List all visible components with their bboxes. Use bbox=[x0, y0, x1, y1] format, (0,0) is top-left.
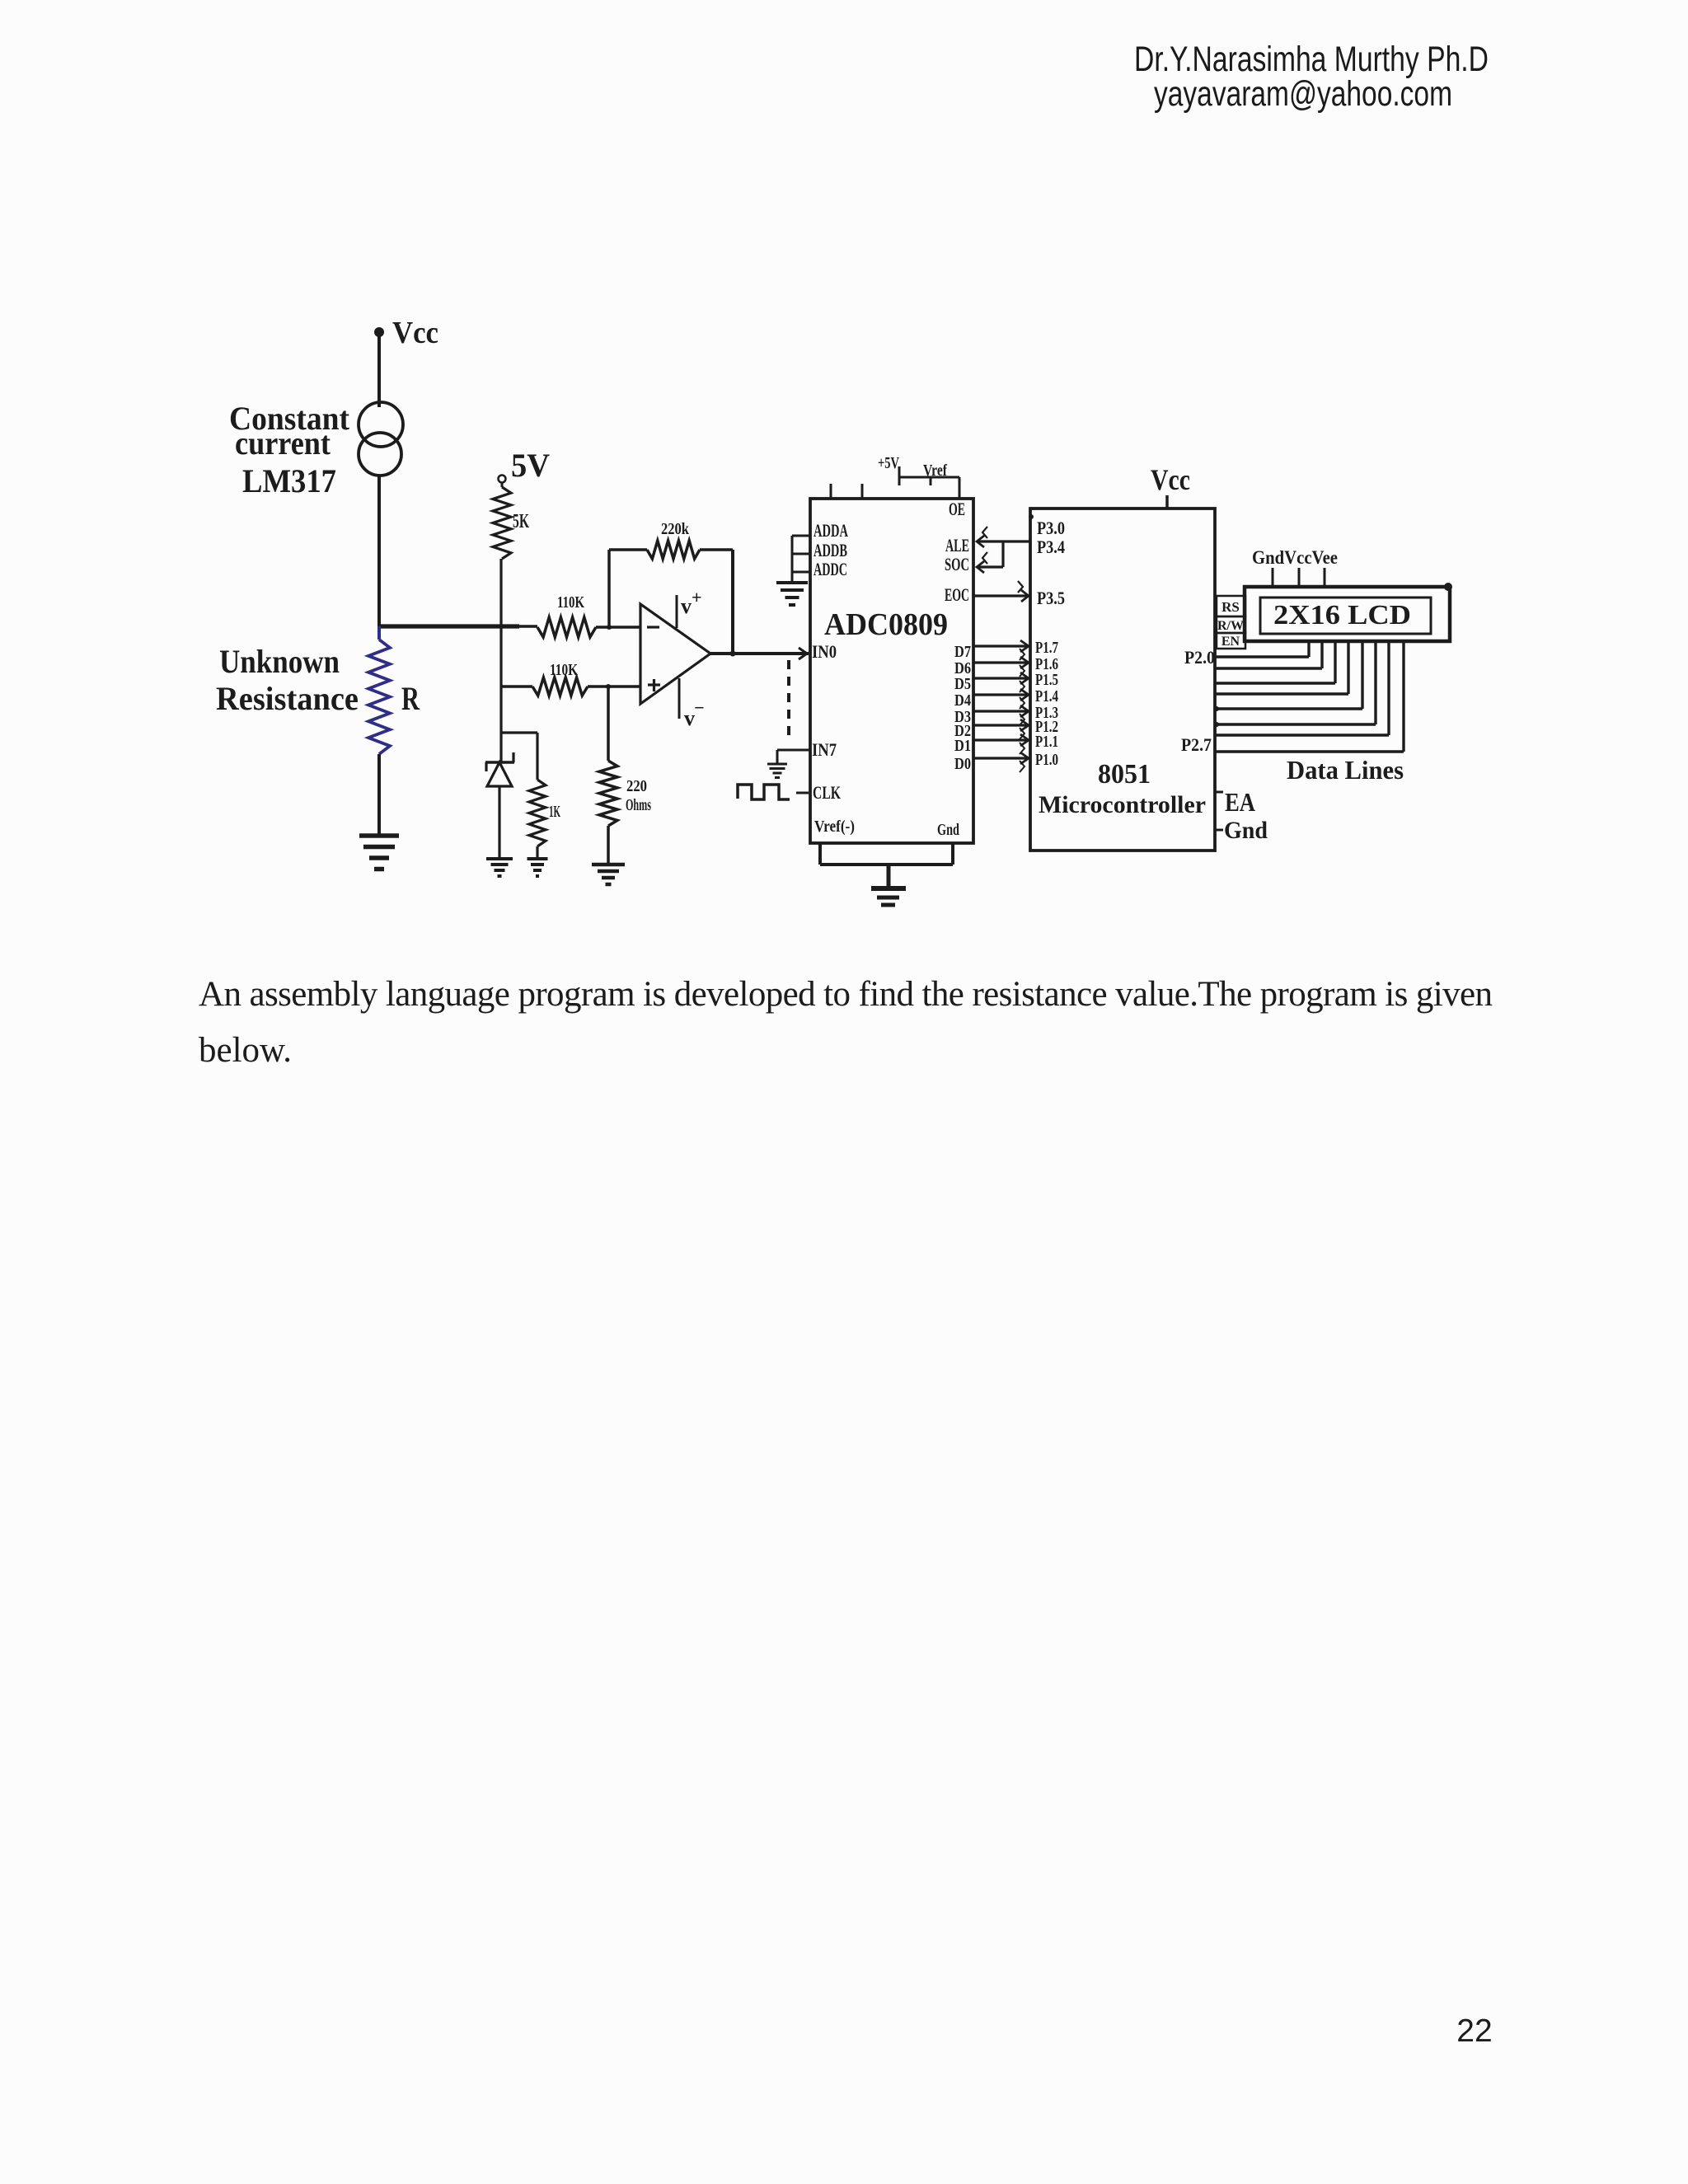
resistor 5K bbox=[493, 482, 511, 626]
pin Gnd 8051 bbox=[1215, 817, 1268, 844]
pin P3.5 bbox=[1037, 588, 1065, 608]
pin OE bbox=[949, 499, 965, 519]
label 2X16 LCD bbox=[1273, 600, 1411, 630]
pin EA bbox=[1215, 787, 1255, 817]
junction dot P3.0 bbox=[1029, 514, 1034, 519]
svg-text:R/W: R/W bbox=[1217, 619, 1244, 633]
wire op-amp output bbox=[710, 652, 809, 655]
ground under R bbox=[359, 836, 399, 869]
junction dots on 8051 edge bbox=[1214, 706, 1219, 727]
wire EOC to P3.5 bbox=[973, 581, 1029, 602]
label 110K mid bbox=[550, 661, 578, 679]
svg-text:Unknown: Unknown bbox=[219, 643, 340, 680]
paragraph line 2 bbox=[199, 1031, 292, 1070]
pin box R/W bbox=[1217, 616, 1245, 633]
label Gnd Vcc Vee bbox=[1252, 547, 1338, 568]
pin P1.4 bbox=[1035, 687, 1058, 705]
pin D3 bbox=[954, 708, 971, 726]
svg-text:+5V: +5V bbox=[878, 454, 899, 472]
svg-text:D5: D5 bbox=[954, 675, 971, 693]
wire Vcc stub bbox=[1165, 495, 1169, 509]
node 5V terminal circle bbox=[499, 476, 506, 483]
label Data Lines bbox=[1287, 755, 1404, 785]
wire LCD data line 1 bbox=[1215, 641, 1322, 668]
label 1K bbox=[549, 803, 560, 821]
pin P1.0 bbox=[1035, 751, 1058, 769]
ground under zener bbox=[486, 859, 513, 876]
wire ALE from P3.4 bbox=[977, 527, 1030, 547]
svg-text:ALE: ALE bbox=[945, 535, 969, 555]
svg-text:ADDB: ADDB bbox=[814, 540, 847, 560]
pin SOC bbox=[945, 554, 969, 574]
svg-text:Resistance: Resistance bbox=[216, 680, 359, 717]
node Vcc terminal dot bbox=[374, 327, 384, 337]
label 5V bbox=[511, 447, 550, 484]
svg-text:yayavaram@yahoo.com: yayavaram@yahoo.com bbox=[1154, 74, 1452, 114]
resistor 110K bbox=[501, 677, 588, 696]
wires ADDA ADDB ADDC to ground bus bbox=[792, 536, 810, 583]
svg-text:Gnd: Gnd bbox=[937, 821, 959, 839]
pin IN7 bbox=[812, 739, 837, 760]
op-amp V- lead bbox=[678, 678, 681, 719]
svg-text:EOC: EOC bbox=[945, 584, 969, 605]
wire LCD data line 3 bbox=[1215, 641, 1348, 694]
wire LCD data line 5 bbox=[1215, 641, 1376, 724]
wire data bit D6 to P1.6 bbox=[973, 657, 1029, 677]
svg-text:EA: EA bbox=[1225, 787, 1255, 817]
pin ADDA bbox=[814, 520, 848, 541]
dashed line IN0 to IN7 bbox=[787, 660, 790, 737]
ground address bus bbox=[776, 583, 808, 605]
wire data bit D1 to P1.1 bbox=[973, 734, 1029, 754]
wire data bit D7 to P1.7 bbox=[973, 640, 1029, 660]
svg-text:P3.0: P3.0 bbox=[1037, 518, 1065, 538]
svg-text:R: R bbox=[401, 680, 420, 717]
pin D4 bbox=[954, 691, 971, 710]
label 220k bbox=[661, 520, 690, 538]
arrow into IN0 bbox=[799, 648, 807, 659]
wire 110K to op-amp plus bbox=[588, 685, 640, 688]
ground IN7 bbox=[767, 764, 787, 778]
svg-text:110K: 110K bbox=[550, 661, 578, 679]
label ADC0809 bbox=[824, 607, 948, 642]
label 110K top bbox=[557, 593, 584, 612]
svg-text:v: v bbox=[681, 594, 692, 618]
pin D2 bbox=[954, 722, 971, 740]
wire data bit D2 to P1.2 bbox=[973, 719, 1029, 739]
wire data bit D0 to P1.0 bbox=[973, 752, 1029, 772]
header email line bbox=[1154, 74, 1452, 114]
svg-text:P2.7: P2.7 bbox=[1181, 734, 1212, 755]
pin P3.0 bbox=[1037, 518, 1065, 538]
svg-text:GndVccVee: GndVccVee bbox=[1252, 547, 1338, 568]
wire current source to node bbox=[377, 475, 381, 627]
pin P2.7 bbox=[1181, 734, 1212, 755]
wire IN7 to ground bbox=[777, 750, 810, 764]
wire data bit D4 to P1.4 bbox=[973, 689, 1029, 709]
svg-text:1K: 1K bbox=[549, 803, 560, 821]
svg-text:P1.0: P1.0 bbox=[1035, 751, 1058, 769]
svg-text:Vref(-): Vref(-) bbox=[814, 818, 855, 836]
svg-text:LM317: LM317 bbox=[242, 462, 336, 499]
LCD inner box bbox=[1260, 598, 1431, 634]
pin D6 bbox=[954, 659, 971, 677]
label Unknown Resistance R bbox=[216, 643, 420, 717]
pin P1.5 bbox=[1035, 671, 1058, 689]
wire tee to 1K bbox=[501, 731, 537, 733]
svg-text:IN7: IN7 bbox=[812, 739, 837, 760]
svg-text:D7: D7 bbox=[954, 643, 971, 661]
wire 10K to op-amp inverting input bbox=[596, 626, 640, 629]
page number bbox=[1456, 2013, 1492, 2049]
pin D1 bbox=[954, 737, 971, 755]
ground under 220 ohms bbox=[592, 865, 625, 884]
svg-text:EN: EN bbox=[1221, 635, 1240, 649]
svg-text:Gnd: Gnd bbox=[1224, 817, 1268, 844]
IC ADC0809 box bbox=[810, 499, 973, 843]
svg-text:SOC: SOC bbox=[945, 554, 969, 574]
clock square wave bbox=[738, 785, 809, 799]
pin ADDB bbox=[814, 540, 847, 560]
pin P1.7 bbox=[1035, 639, 1058, 657]
svg-text:8051: 8051 bbox=[1098, 759, 1151, 790]
svg-text:ADDA: ADDA bbox=[814, 520, 848, 541]
pin Gnd ADC bbox=[937, 821, 959, 839]
label 5K bbox=[513, 511, 529, 532]
pin P1.6 bbox=[1035, 655, 1058, 673]
svg-text:Vcc: Vcc bbox=[1151, 463, 1190, 496]
svg-text:−: − bbox=[694, 697, 705, 718]
pin stubs Gnd Vcc Vee bbox=[1273, 568, 1325, 587]
label Vcc 8051 bbox=[1151, 463, 1190, 496]
op-amp U1 bbox=[640, 604, 710, 704]
svg-text:OE: OE bbox=[949, 499, 965, 519]
junction dot 220 ohm tap bbox=[606, 684, 611, 689]
svg-text:P1.4: P1.4 bbox=[1035, 687, 1058, 705]
svg-text:P1.5: P1.5 bbox=[1035, 671, 1058, 689]
pin ALE bbox=[945, 535, 969, 555]
svg-text:Vcc: Vcc bbox=[392, 316, 438, 350]
label +5V bbox=[878, 454, 899, 472]
label Vref top bbox=[923, 462, 947, 480]
svg-text:110K: 110K bbox=[557, 593, 584, 612]
wire feedback left vertical bbox=[607, 550, 611, 627]
svg-text:Microcontroller: Microcontroller bbox=[1039, 791, 1206, 818]
resistor 1K bbox=[529, 733, 546, 859]
wires ADC bottom to ground bbox=[820, 843, 953, 888]
label Constant current LM317 bbox=[229, 400, 350, 499]
IC 8051 box bbox=[1030, 509, 1215, 851]
label Microcontroller bbox=[1039, 791, 1206, 818]
svg-text:CLK: CLK bbox=[813, 782, 841, 803]
zener diode bbox=[485, 752, 514, 859]
svg-text:ADC0809: ADC0809 bbox=[824, 607, 948, 642]
svg-text:RS: RS bbox=[1221, 599, 1240, 615]
current source LM317 (two overlapping circles) bbox=[359, 402, 403, 476]
pin P2.0 bbox=[1184, 647, 1215, 668]
svg-text:Ohms: Ohms bbox=[626, 796, 651, 814]
resistor R (unknown resistance) bbox=[368, 626, 390, 836]
label 220 Ohms bbox=[626, 777, 651, 814]
pin box EN bbox=[1217, 633, 1245, 649]
LCD outer box bbox=[1245, 587, 1450, 641]
pin stubs ADC top bbox=[831, 484, 862, 499]
wire LCD data line 4 bbox=[1215, 641, 1362, 709]
resistor 220 Ohms bbox=[599, 761, 617, 865]
wire Vcc to current source bbox=[377, 334, 381, 407]
wire LCD data line 7 bbox=[1215, 641, 1404, 752]
wire data bit D5 to P1.5 bbox=[973, 673, 1029, 692]
svg-text:220k: 220k bbox=[661, 520, 690, 538]
wire main node horizontal bbox=[377, 624, 537, 628]
pin Vref(-) bbox=[814, 818, 855, 836]
ground under 1K bbox=[527, 859, 548, 876]
svg-text:22: 22 bbox=[1456, 2013, 1492, 2049]
pin ADDC bbox=[814, 559, 847, 579]
svg-text:D1: D1 bbox=[954, 737, 971, 755]
label 8051 bbox=[1098, 759, 1151, 790]
wire node down to 110K and zener bbox=[499, 626, 502, 762]
svg-text:P3.5: P3.5 bbox=[1037, 588, 1065, 608]
svg-text:P1.1: P1.1 bbox=[1035, 733, 1058, 751]
label Vcc bbox=[392, 316, 438, 350]
wire feedback right vertical to output bbox=[731, 550, 734, 654]
svg-text:P3.4: P3.4 bbox=[1037, 537, 1065, 557]
junction output feedback dot bbox=[730, 651, 736, 657]
label v- bbox=[684, 697, 705, 730]
wire LCD data line 2 bbox=[1215, 641, 1335, 683]
svg-text:D4: D4 bbox=[954, 691, 971, 710]
paragraph line 1 bbox=[199, 975, 1493, 1014]
pin CLK bbox=[813, 782, 841, 803]
junction node dot bbox=[499, 624, 504, 629]
node LCD corner dot bbox=[1444, 583, 1452, 591]
wire SOC branch bbox=[977, 541, 1003, 573]
pin D0 bbox=[954, 755, 971, 773]
pin IN0 bbox=[812, 641, 837, 662]
svg-text:ADDC: ADDC bbox=[814, 559, 847, 579]
junction feedback tap dot bbox=[607, 625, 612, 630]
header author line bbox=[1134, 40, 1489, 79]
op-amp V+ lead bbox=[676, 595, 678, 628]
svg-text:220: 220 bbox=[626, 777, 647, 795]
wire plus node to 220 ohms bbox=[607, 687, 610, 761]
resistor 220k feedback bbox=[609, 541, 733, 559]
svg-text:IN0: IN0 bbox=[812, 641, 837, 662]
svg-text:D0: D0 bbox=[954, 755, 971, 773]
wire LCD data line 6 bbox=[1215, 641, 1389, 735]
svg-text:5K: 5K bbox=[513, 511, 529, 532]
svg-text:5V: 5V bbox=[511, 447, 550, 484]
wire +5V Vref bracket bbox=[899, 466, 959, 499]
svg-text:2X16 LCD: 2X16 LCD bbox=[1273, 600, 1411, 630]
pin D5 bbox=[954, 675, 971, 693]
svg-text:+: + bbox=[692, 587, 702, 607]
svg-text:below.: below. bbox=[199, 1031, 292, 1070]
label v+ bbox=[681, 587, 702, 618]
svg-text:An assembly language program i: An assembly language program is develope… bbox=[199, 975, 1493, 1014]
pin P1.3 bbox=[1035, 704, 1058, 722]
pin P3.4 bbox=[1037, 537, 1065, 557]
svg-text:P2.0: P2.0 bbox=[1184, 647, 1215, 668]
pin box RS bbox=[1217, 596, 1245, 616]
ground ADC bottom bbox=[871, 888, 906, 905]
pin D7 bbox=[954, 643, 971, 661]
svg-text:Dr.Y.Narasimha Murthy Ph.D: Dr.Y.Narasimha Murthy Ph.D bbox=[1134, 40, 1489, 79]
wire LCD data line 0 bbox=[1215, 641, 1309, 657]
svg-text:P1.7: P1.7 bbox=[1035, 639, 1058, 657]
pin P1.2 bbox=[1035, 718, 1058, 736]
pin P1.1 bbox=[1035, 733, 1058, 751]
wire data bit D3 to P1.3 bbox=[973, 705, 1029, 725]
pin EOC bbox=[945, 584, 969, 605]
resistor 10K (label 110K) bbox=[537, 617, 596, 637]
svg-text:Data Lines: Data Lines bbox=[1287, 755, 1404, 785]
svg-text:current: current bbox=[235, 424, 331, 462]
